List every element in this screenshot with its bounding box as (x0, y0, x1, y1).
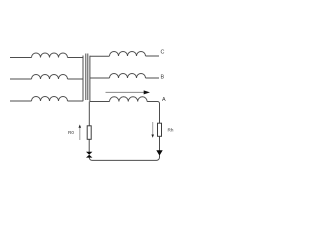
wire L1 to primary star point (68, 57, 84, 59)
svg-text:Rh: Rh (168, 128, 174, 133)
wire phase A to fault branch corner (147, 102, 159, 124)
current arrow above winding A (106, 90, 151, 94)
wire terminal B (146, 77, 160, 79)
node primary star point bus (82, 56, 84, 102)
node secondary neutral bus N (89, 56, 91, 102)
wire Rh branch below fault resistor (159, 136, 161, 150)
winding L3 (primary phase winding) (32, 97, 68, 102)
transformer core line 1 (85, 54, 87, 101)
wire terminal C (146, 55, 160, 57)
svg-text:A: A (162, 97, 166, 103)
wire R0 branch bowtie to earth corner (88, 156, 90, 158)
wire phase line 2 left lead (10, 78, 32, 80)
wire neutral bus down to R0 (88, 102, 90, 126)
wire secondary A from neutral (90, 101, 110, 103)
wire bottom earth return (89, 155, 159, 160)
wire phase line 1 left lead (10, 57, 32, 59)
arrowhead bowtie at R0 earth point (86, 152, 92, 158)
wire R0 branch below neutral resistor (88, 139, 90, 152)
wire L3 to primary star point (68, 100, 84, 102)
winding L2 (primary phase winding) (32, 75, 68, 80)
current arrow beside R0 pointing up (79, 125, 82, 141)
winding B (secondary phase B) (110, 74, 146, 79)
wire secondary B from neutral (90, 77, 110, 79)
svg-text:R0: R0 (68, 130, 74, 135)
wire L2 to primary star point (68, 78, 84, 80)
current arrow beside Rh pointing down (151, 122, 154, 138)
svg-text:B: B (161, 75, 165, 81)
winding L1 (primary phase winding) (32, 53, 68, 58)
arrowhead at Rh earth point pointing down (156, 150, 162, 155)
wire phase line 3 left lead (10, 100, 32, 102)
transformer core line 2 (87, 54, 89, 101)
wire secondary C from neutral (90, 55, 110, 57)
resistor R0 (neutral grounding resistor) (87, 126, 91, 140)
svg-text:C: C (161, 50, 165, 56)
resistor Rh (fault transition resistance) (158, 123, 162, 136)
winding C (secondary phase C) (110, 52, 146, 57)
winding A (secondary phase A) (110, 97, 148, 102)
